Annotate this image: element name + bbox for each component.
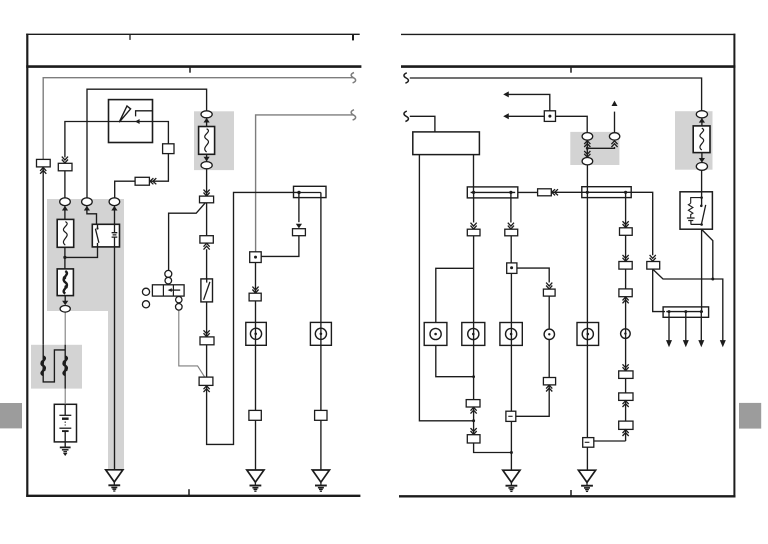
wire: F2 to battery oval [64, 296, 66, 302]
oval O1 [582, 133, 593, 141]
floating connector circle left1 [142, 288, 149, 295]
wire: fuse column down to relay [701, 170, 703, 206]
connector B7 [249, 293, 261, 301]
wire break symbol second [351, 110, 355, 120]
lamp LR2 box [462, 323, 485, 346]
relay connector circle c1 [165, 270, 172, 277]
wire: L2 to ground [320, 420, 322, 469]
arrow under fuse top oval [699, 118, 705, 123]
wire: B11 through J3 to right column [551, 192, 652, 255]
wire: B16 to lamp LR4 [548, 296, 550, 329]
square connector SQ2 with dot [507, 263, 517, 274]
connector B3 [200, 236, 213, 243]
wire break symbol top-right [351, 73, 355, 83]
wire: J2 pin2 down [510, 192, 512, 222]
left page header rule (thick) [26, 65, 361, 68]
chevron above B21 [623, 364, 629, 370]
wire: +B feed from off-page [410, 78, 702, 111]
wire: connector to B3 [206, 203, 208, 236]
oval connector row A [60, 198, 71, 206]
junction dot J1 [297, 191, 300, 194]
wire: J2 to connector B11 [518, 191, 538, 193]
wire: square branch to LR4 column [517, 268, 549, 282]
wire: lamp LR1 bottom to LR2 column [436, 345, 474, 376]
wire: fusible links inside shade [43, 345, 65, 389]
circuit-opening contact box [201, 279, 213, 302]
wire: square to lamp LR3 column [510, 273, 512, 411]
ground G2 (lamp L1) [247, 470, 264, 491]
chevron above B15 [508, 223, 514, 229]
wire: ignition feed top run [87, 89, 207, 197]
chevron above B19 [623, 255, 629, 261]
wire: branch to lamp LR1 [436, 268, 474, 322]
AM fuse bottom oval [201, 162, 212, 169]
SQ3 dash [508, 415, 512, 417]
oval connector row C [109, 198, 120, 206]
arrow above battery oval [62, 301, 68, 306]
relay box R1 [92, 224, 119, 247]
chevron under B23 [623, 430, 629, 436]
AM connector box [200, 196, 214, 203]
fuse bottom oval (right) [696, 163, 707, 171]
junction dot J3 pin2 [624, 191, 627, 194]
indicator lamp L1 box [246, 322, 266, 345]
wire+arrow speaker 2 [685, 312, 687, 341]
wire: B3 to contact box [206, 249, 208, 279]
battery ground [60, 447, 71, 455]
wire: ACC feed to radio [410, 116, 435, 132]
square connector with dot [250, 252, 262, 263]
radio receiver box [413, 132, 480, 155]
lamp L2 filament dot [320, 333, 323, 336]
noise-filter relay box [680, 192, 712, 229]
wire: LR3 to ground [510, 421, 512, 470]
wire: tail-fuse feed (gray, off-page right) [256, 115, 354, 252]
arrow speaker far right [720, 340, 726, 347]
wire: relay coil to connector (thin) [179, 310, 205, 377]
wire: J1 pin1 down [298, 193, 300, 223]
lamp LR1 filament dot [434, 333, 437, 336]
SQ2 dot [510, 266, 513, 269]
AM fuse wave [205, 129, 209, 152]
connector B16 [543, 289, 555, 296]
wire: radio pin A down and across [419, 155, 473, 421]
right page right border [733, 34, 735, 497]
wire: SB1 up to +B arrow run [509, 94, 550, 110]
fusible link box F2 [57, 269, 73, 296]
fusible link F2 wave [64, 271, 67, 294]
relay interior: blade [701, 205, 705, 225]
radio fuse box [693, 126, 710, 153]
wire: relay box to J4 [701, 229, 703, 311]
connector B12 [467, 229, 480, 236]
wire: oval2 up arrow run [614, 112, 616, 133]
arrow left lower [503, 113, 509, 119]
relay R1 coil [112, 224, 118, 247]
chevron under B5 [204, 386, 210, 392]
right page top border [401, 33, 735, 35]
ground G1 (main harness) [106, 470, 123, 491]
chevron above B12 [471, 223, 477, 229]
connector B14 [467, 435, 480, 443]
wire: L1 to ground [255, 420, 257, 469]
battery plates [59, 415, 71, 431]
wire: LR2 lower chain [474, 407, 512, 453]
arrow under oval B [84, 206, 90, 211]
indicator lamp L2 box [310, 322, 331, 345]
connector B17 [543, 378, 555, 385]
connector B19 [619, 262, 632, 270]
wire: B15 to square connector [510, 236, 512, 263]
contact box blade [204, 282, 210, 300]
junction dot LR3 ground run [510, 451, 513, 454]
lamp LR5 filament dot [587, 333, 590, 336]
chevron under B13 [471, 407, 477, 413]
chevron above B4 [204, 330, 210, 336]
relay R1 blade [95, 229, 99, 243]
junction dot J2 pin1 [472, 191, 475, 194]
tick on top border x=353 [352, 34, 354, 40]
chevron above B10 [650, 255, 656, 261]
connector B2 [58, 163, 72, 171]
wire: AM fuse oval gaps [206, 118, 208, 162]
wire: battery internal stem [64, 404, 66, 447]
wire break symbol ACC [404, 111, 408, 121]
wire: B6 to square connector [261, 236, 299, 257]
tick on bottom border x=571 [570, 490, 572, 496]
wire: fusible link to battery (gray segments) [64, 312, 66, 345]
square connector SQ3 [506, 411, 516, 421]
wire: ignition switch row [65, 122, 168, 158]
connector B4 [200, 337, 214, 345]
oval O2 [609, 133, 619, 140]
tick on header rule x=571 [570, 67, 572, 73]
arrow under oval A [62, 206, 68, 211]
junction dot J4 a [668, 310, 671, 313]
junction connector J2 [467, 187, 518, 198]
fuse top oval (right) [696, 111, 707, 118]
right page bottom border [399, 495, 736, 497]
ignition contact bracket [136, 111, 153, 117]
lamp LR1 bulb [430, 328, 441, 339]
wire: oval to relay coil pin [114, 206, 116, 225]
connector B6 [293, 229, 306, 236]
connector B23 [619, 421, 633, 429]
wire: battery feed (gray, off-page right) [43, 78, 353, 160]
connector B15 [505, 229, 518, 236]
relay interior: capacitor [687, 218, 702, 224]
relay interior: bottom dot [700, 223, 703, 226]
wire: rear speaker feed run [653, 269, 723, 341]
wire: J2 bus bar [471, 191, 516, 193]
chevron under O1 [584, 141, 590, 147]
lamp L1 filament dot [254, 333, 257, 336]
chevron above O3 [584, 151, 590, 157]
SB1 dot [548, 115, 551, 118]
wire: relay diagonal branch [702, 229, 713, 279]
wire: right fuse oval gaps [701, 118, 703, 163]
lamp LR4 filament dot [548, 333, 550, 335]
relay block 3-cell [152, 285, 184, 296]
wire: fusible-link column upper [64, 171, 66, 198]
wire: J2 pin1 down [473, 192, 475, 222]
tick on header rule x=190 [189, 67, 191, 73]
wire: J4 bus [666, 311, 703, 313]
left page top border [26, 33, 360, 35]
chevron above B16 [546, 283, 552, 289]
lamp LR5 box [577, 323, 599, 346]
chevron under B1 [40, 168, 46, 174]
wire: oval to fuse F1 [64, 206, 66, 220]
wire: branch to oval2 [587, 147, 614, 148]
wire: B17 left to LR3 column [516, 385, 549, 416]
chevron above B18 [623, 221, 629, 227]
left page bottom border [26, 495, 360, 497]
battery oval [60, 306, 70, 313]
relay R1 pin dot [96, 227, 98, 229]
relay connector circle c2 [165, 277, 172, 284]
lamp LR3 box [500, 323, 522, 346]
battery box [54, 404, 76, 442]
SQ4 dash [585, 441, 590, 443]
fuse box F1 [57, 219, 73, 247]
relay connector circle c4 [176, 304, 183, 311]
junction dot radio A [472, 419, 475, 422]
wire: F1 bottom junction run [65, 247, 98, 269]
contact box stub [206, 279, 208, 283]
ground GR2 (lamp LR5) [578, 470, 595, 491]
lamp LR6 bulb (unboxed) [621, 329, 631, 339]
connector B20 [619, 289, 632, 297]
relay interior: resistor branch [691, 198, 702, 204]
chevron under B22 [623, 401, 629, 407]
lamp LR3 filament dot [510, 333, 513, 336]
wire: LR5 square to ground [586, 447, 588, 470]
chevron under O2 [611, 141, 617, 147]
switch output square [163, 144, 174, 154]
wire: square to lamp L1 column [255, 263, 257, 411]
lamp LR6 filament dot [624, 332, 626, 334]
wire: B4 to B5 [206, 345, 208, 377]
arrow under oval C [111, 206, 117, 211]
connector B21 [619, 371, 633, 379]
arrow above fuse bottom oval [699, 158, 705, 163]
wire: contact box to B4 [206, 302, 208, 337]
connector SB1 with dot [544, 111, 555, 122]
relay R1 blade stub [97, 243, 99, 247]
left page shading: AM fuse block [194, 111, 234, 170]
junction dot ovals [586, 147, 589, 150]
wire: B12 to lamp LR2 and below [473, 236, 475, 400]
oval O3 [582, 158, 593, 165]
wire: connector B1 down-lead [42, 167, 44, 345]
left page shading: engine-room main block [47, 199, 124, 470]
connector B5 [199, 377, 213, 385]
chevron under B20 [623, 297, 629, 303]
right margin index tab [739, 403, 761, 429]
arrow above AM bottom oval [204, 157, 210, 162]
wire: oval to relay step [87, 206, 97, 225]
fusible link wave B [64, 357, 67, 376]
wire: SB1 left arrow run [509, 115, 545, 117]
floating connector circle left2 [142, 301, 149, 308]
junction dot J4 b [684, 310, 687, 313]
junction dot J2 pin2 [509, 191, 512, 194]
tick on bottom border x=189 [188, 489, 190, 496]
indicator lamp L1 bulb [250, 328, 261, 339]
junction J1 bus bar [299, 192, 321, 194]
chevron above B2 [62, 157, 68, 163]
chevron right of B11 [552, 189, 558, 195]
relay interior: top dot [700, 196, 703, 199]
right page header rule (thick) [401, 65, 736, 68]
wire: switch output to resistor [149, 154, 168, 182]
connector B13 [466, 400, 480, 407]
junction dot F1/relay [63, 256, 66, 259]
relay R1 pin stub [97, 224, 99, 228]
arrow above B6 [296, 224, 302, 229]
lamp LR5 bulb [582, 328, 593, 339]
wire: radio pin B to J2 [473, 155, 475, 193]
chevron left at resistor [150, 178, 156, 184]
ignition switch box [109, 100, 153, 143]
connector B22 [619, 393, 633, 401]
wire: J3 pin2 chain down [594, 192, 626, 441]
junction dot speaker run [711, 278, 714, 281]
chevron under B17 [546, 385, 552, 391]
connector B1 [37, 159, 51, 167]
right page shading: connector ovals [570, 132, 619, 165]
resistor box [135, 177, 149, 185]
chevron above AM connector [204, 190, 210, 196]
arrow up antenna [612, 101, 618, 106]
relay interior: pin end dot [700, 205, 703, 208]
junction dot J3 pin1 [586, 191, 589, 194]
wire: oval1 to oval3 [586, 140, 588, 157]
lamp LR2 filament dot [472, 333, 475, 336]
tick on top border x=130 [129, 34, 131, 40]
left margin index tab [0, 403, 22, 428]
square connector dot [254, 256, 257, 259]
wire: oval3 down through J3 to lamp LR5 [586, 165, 588, 438]
ignition lever [119, 106, 130, 122]
wire break symbol +B [404, 73, 408, 83]
lamp LR1 box [424, 323, 447, 346]
connector B11 [538, 189, 552, 196]
connector B8 [249, 410, 261, 420]
junction dot LR1 join [472, 375, 475, 378]
oval connector row B [82, 198, 93, 206]
AM fuse box [199, 127, 215, 155]
lamp LR3 bulb [506, 328, 517, 339]
wire+arrow speaker 3 [700, 312, 702, 341]
connector B18 [620, 228, 633, 236]
wire: B10 into J4 [653, 269, 665, 312]
wire: LR4 to B17 [548, 340, 550, 378]
left page shading: fusible-link block [31, 345, 82, 389]
ground G3 (lamp L2) [312, 470, 329, 491]
wire: relay coil to ground column [114, 247, 116, 470]
wire: AM fuse to connector [206, 169, 208, 196]
chevron under B3 [204, 243, 210, 249]
wire: ovals feed from SB1 [556, 116, 588, 133]
chevron above B14 [471, 428, 477, 434]
wire: branch to relay coil circles [169, 203, 206, 271]
chevron above B7 [252, 287, 258, 293]
relay interior: resistor zigzag [688, 203, 693, 217]
arrow under AM top oval [204, 118, 210, 123]
junction connector J1 [294, 186, 327, 197]
lamp LR2 bulb [468, 328, 479, 339]
wire: B5 wrap-around to junction J1 [207, 192, 299, 444]
wire: resistor to oval connector [115, 181, 135, 197]
wire: J1 pin2 to lamp L2 and ground [320, 193, 322, 411]
AM fuse top oval [201, 111, 212, 118]
relay connector circle c3 [176, 297, 182, 303]
wire+arrow speaker 1 [668, 312, 670, 341]
junction dot J4 c [700, 310, 703, 313]
connector B10 [647, 262, 660, 270]
arrow left upper [503, 91, 509, 97]
ignition arrow [135, 119, 140, 124]
left page left border [26, 34, 28, 497]
fuse F1 wave [63, 222, 67, 246]
ground GR1 (lamp LR3) [503, 470, 520, 491]
indicator lamp L2 bulb [315, 328, 326, 339]
right page shading: fuse block [675, 111, 713, 170]
speaker junction connector J4 [663, 307, 709, 317]
lamp LR4 bulb (unboxed) [544, 329, 554, 339]
fusible link wave A [42, 357, 45, 376]
relay block arrow [168, 288, 181, 292]
connector B9 [315, 410, 327, 420]
junction connector J3 [582, 187, 631, 198]
square connector SQ4 [583, 438, 594, 448]
radio fuse wave [700, 128, 704, 150]
